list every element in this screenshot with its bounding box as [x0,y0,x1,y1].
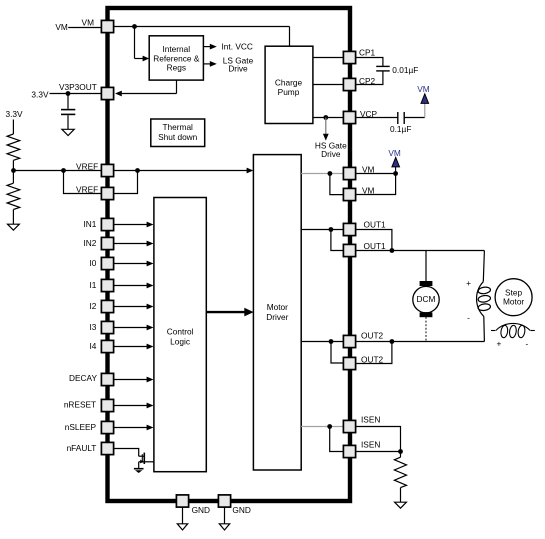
svg-text:I4: I4 [89,341,96,351]
svg-text:DCM: DCM [417,294,436,304]
svg-text:I3: I3 [89,322,96,332]
svg-text:CP2: CP2 [359,76,376,86]
wire VREF2 loop [114,171,137,194]
svg-text:OUT2: OUT2 [361,354,384,364]
wire DECAY to control logic [114,377,154,383]
wire ISEN1 right [357,427,401,452]
arrow control logic to motor driver [207,308,254,317]
pin VM [343,164,374,179]
block: Internal Reference & Regs [149,36,203,80]
pin IN1 [83,218,113,230]
pin IN2 [83,237,113,249]
wire motor driver to VM pins (gray) [301,173,343,175]
svg-text:ISEN: ISEN [361,439,380,449]
wire motor driver to ISEN (gray) [301,426,343,428]
svg-text:IN1: IN1 [83,219,96,229]
wire IN2 to control logic [114,241,154,247]
pin VM [82,17,114,32]
pin OUT2 [343,354,383,369]
wire OUT2 left bracket [331,342,343,364]
svg-text:VM: VM [362,185,375,195]
pin OUT2 [343,330,383,347]
block: Thermal Shutdown [151,119,205,147]
node VM pins left junction [328,171,333,176]
resistor R2 [7,171,20,225]
wire VM1 to VM node [357,173,396,175]
svg-text:OUT1: OUT1 [364,219,387,229]
svg-text:3.3V: 3.3V [6,109,24,119]
svg-text:+: + [466,278,471,288]
wire ISEN2 right [357,451,401,453]
svg-text:IN2: IN2 [83,238,96,248]
pin nSLEEP [65,421,114,433]
svg-text:VM: VM [362,164,375,174]
node VREF branch [61,168,66,173]
wire R1 to node [12,160,14,170]
svg-text:nFAULT: nFAULT [67,443,97,453]
pin VREF [76,185,114,200]
power VM arrow at VCP [417,84,430,118]
step motor M1 [495,279,532,316]
svg-text:0.1µF: 0.1µF [390,124,411,134]
motor DCM [413,281,439,317]
svg-text:-: - [467,313,470,323]
wire motor top rail [392,250,485,252]
resistor R1 [7,134,20,160]
pin I2 [89,300,113,312]
ground below C1 [62,129,74,135]
ground at Q1 source [134,469,144,473]
arrow HS Gate Drive [315,118,347,159]
wire I2 to control logic [114,304,154,310]
wire VM pins left bracket [330,174,343,195]
wire charge pump to CP1 [313,57,343,59]
capacitor C2 0.01uF [357,58,419,85]
block: Motor Driver [253,155,301,470]
wire charge pump to CP2 [313,84,343,86]
svg-text:VM: VM [417,84,430,94]
svg-text:Regs: Regs [167,63,186,73]
svg-text:Int. VCC: Int. VCC [222,41,253,51]
svg-text:0.01µF: 0.01µF [392,65,418,75]
node OUT1 right junction [390,248,395,253]
inductor L1 winding [466,251,491,342]
node VM junction [132,24,137,29]
node VM right junction [393,171,398,176]
wire IN1 to control logic [114,222,154,228]
pin OUT1 [343,219,386,235]
pin VREF [76,161,114,176]
arrow Int. VCC [203,41,252,51]
svg-text:3.3V: 3.3V [31,89,49,99]
capacitor C3 0.1uF [357,112,425,134]
pin GND bottom [218,495,250,515]
wire nSLEEP to control logic [114,425,154,431]
node VREF junction [135,168,140,173]
ground below R3 [395,502,407,508]
node ISEN sense junction [398,449,403,454]
ground below R2 [8,224,20,230]
block: Charge Pump [265,46,313,123]
node VCP junction [323,115,328,120]
wire branch to VREF2 [64,171,102,194]
wire OUT2a right / motor bottom rail [357,341,485,343]
node OUT1 left junction [329,227,334,232]
svg-text:Thermal: Thermal [162,122,193,132]
svg-text:OUT2: OUT2 [361,330,384,340]
wire I4 to control logic [114,344,154,350]
wire motor driver to OUT2 [301,341,343,343]
pin VCP [343,109,377,124]
wire VM2 right bracket [357,174,396,195]
svg-text:V3P3OUT: V3P3OUT [59,82,97,92]
pin nFAULT [67,442,114,454]
wire OUT1a right [357,230,392,251]
resistor R3 sense [394,452,406,503]
pin nRESET [64,399,114,411]
pin ISEN [343,414,380,432]
wire I3 to control logic [114,325,154,331]
IC boundary U1 [108,8,351,501]
block: Control Logic [154,198,206,472]
svg-text:ISEN: ISEN [361,414,380,424]
ground below GND pin [219,508,229,531]
pin DECAY [69,373,114,385]
pin ISEN [343,439,380,457]
wire nFAULT to transistor [114,449,139,457]
svg-text:VM: VM [55,22,68,32]
wire VREF to motor driver [114,168,253,174]
pin V3P3OUT [59,82,114,100]
svg-text:-: - [526,339,529,349]
pin CP1 [343,48,375,64]
svg-text:I2: I2 [89,301,96,311]
power VM arrow at VM pins [388,148,401,174]
pin I4 [89,340,113,352]
svg-text:GND: GND [232,505,250,515]
svg-text:GND: GND [192,505,210,515]
inductor L2 horizontal [491,323,535,348]
svg-text:Pump: Pump [278,87,300,97]
svg-text:VREF: VREF [76,161,98,171]
svg-text:DECAY: DECAY [69,373,97,383]
wire I1 to control logic [114,283,154,289]
wire charge pump to VCP [313,117,343,119]
motor DCM leads [425,251,427,282]
svg-text:Driver: Driver [266,312,288,322]
wire 3.3V to V3P3OUT [50,93,102,95]
svg-text:VREF: VREF [76,185,98,195]
wire ISEN left bracket [330,427,343,452]
wire OUT2b right [357,342,392,364]
pin I3 [89,321,113,333]
wire tap to VREF [13,170,101,172]
arrow LS Gate Drive [203,55,253,73]
svg-text:Motor: Motor [503,297,524,307]
capacitor C1 V3P3OUT [61,94,75,130]
pin VM [343,185,374,200]
node OUT2 left junction [329,339,334,344]
svg-text:VM: VM [388,148,401,158]
svg-text:Motor: Motor [267,302,288,312]
ground below GND pin [177,508,187,531]
node ISEN left junction [327,424,332,429]
pin CP2 [343,76,375,91]
svg-text:CP1: CP1 [359,48,376,58]
svg-text:Logic: Logic [170,336,190,346]
wire OUT1 left bracket [331,230,343,251]
node divider tap [11,168,16,173]
svg-text:Control: Control [167,326,194,336]
svg-text:nRESET: nRESET [64,400,96,410]
pin GND bottom [176,495,210,515]
svg-text:Drive: Drive [321,149,341,159]
node OUT2 right junction [390,339,395,344]
wire I0 to control logic [114,261,154,267]
wire regs to V3P3OUT [115,80,177,96]
wire OUT1b right [357,250,392,252]
svg-text:Drive: Drive [228,63,248,73]
wire 3.3V to R1 [12,120,14,135]
svg-text:I1: I1 [89,280,96,290]
wire motor driver to OUT1 [301,229,343,231]
pin I1 [89,279,113,291]
pin I0 [89,257,113,269]
svg-text:Shut down: Shut down [158,132,198,142]
svg-text:nSLEEP: nSLEEP [65,422,97,432]
svg-text:I0: I0 [89,258,96,268]
transistor Q1 nFAULT open drain [139,453,154,469]
svg-text:VCP: VCP [360,109,378,119]
wire VM to reference regs [135,27,150,62]
node V3P3OUT junction [66,91,71,96]
svg-text:+: + [496,339,501,349]
pin OUT1 [343,241,386,257]
svg-text:VM: VM [82,17,95,27]
wire nRESET to control logic [114,403,154,409]
svg-text:OUT1: OUT1 [364,241,387,251]
wire VM net top [68,27,289,47]
